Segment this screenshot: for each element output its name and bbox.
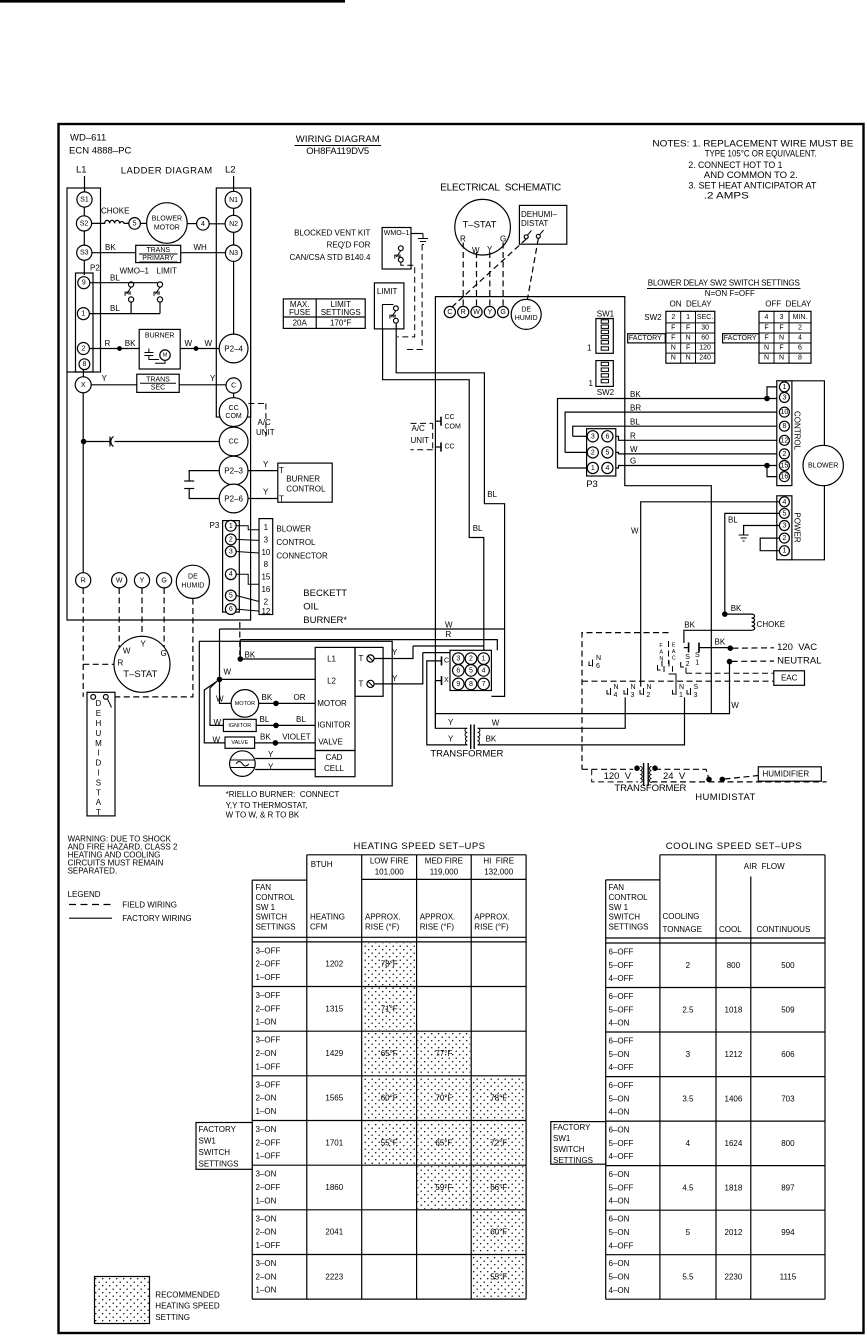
svg-text:W: W	[224, 667, 232, 676]
power pin 1	[779, 546, 789, 556]
svg-text:6: 6	[229, 606, 233, 613]
svg-text:Y: Y	[102, 374, 108, 383]
svg-text:3–OFF: 3–OFF	[256, 1080, 281, 1089]
field wiring dashed box	[582, 633, 669, 770]
WMO-1 switch	[398, 246, 403, 251]
svg-text:D: D	[96, 759, 102, 768]
wire W to L2	[220, 678, 316, 680]
trans sec box	[137, 374, 179, 392]
wire L1 drop	[84, 176, 86, 192]
svg-text:SEC.: SEC.	[697, 314, 713, 321]
burner control box	[278, 463, 332, 502]
svg-text:LOW FIRE: LOW FIRE	[370, 857, 409, 866]
svg-text:2041: 2041	[325, 1228, 343, 1237]
svg-text:5–ON: 5–ON	[609, 1273, 630, 1282]
svg-text:D: D	[96, 699, 102, 708]
svg-text:60: 60	[701, 335, 709, 342]
dashed dehumidistat to C	[452, 239, 526, 307]
switch S2 S1 contacts	[688, 643, 690, 653]
svg-text:H: H	[96, 719, 102, 728]
svg-text:12: 12	[781, 437, 789, 444]
svg-text:LADDER DIAGRAM: LADDER DIAGRAM	[121, 166, 213, 177]
on delay factory box	[628, 334, 666, 343]
svg-text:2230: 2230	[725, 1273, 743, 1282]
svg-text:3: 3	[780, 314, 784, 321]
svg-text:G: G	[161, 577, 166, 584]
svg-text:G: G	[161, 649, 167, 658]
svg-text:L2: L2	[327, 677, 336, 686]
terminal S1	[77, 192, 92, 207]
svg-text:1: 1	[782, 548, 786, 555]
svg-text:W: W	[205, 339, 213, 348]
wire S3 to trans primary	[92, 252, 136, 254]
wire BR to control 10	[565, 412, 779, 452]
svg-text:BLOCKED VENT KIT: BLOCKED VENT KIT	[294, 229, 370, 238]
svg-text:COM: COM	[225, 413, 242, 420]
svg-text:WIRING DIAGRAM: WIRING DIAGRAM	[296, 134, 380, 145]
dashed drop R	[82, 588, 84, 697]
svg-text:S: S	[685, 654, 690, 661]
terminal CC	[219, 427, 248, 456]
svg-text:Y: Y	[210, 374, 216, 383]
svg-text:P2: P2	[90, 264, 100, 273]
svg-text:4: 4	[614, 692, 618, 699]
control pin 12	[779, 435, 789, 445]
svg-text:G: G	[630, 457, 636, 466]
svg-text:2: 2	[686, 661, 690, 668]
svg-text:PRIMARY: PRIMARY	[142, 255, 174, 262]
svg-text:2–OFF: 2–OFF	[256, 1183, 281, 1192]
svg-text:78°F: 78°F	[490, 1094, 507, 1103]
svg-text:HUMID: HUMID	[181, 582, 204, 589]
wire 2 to burner	[89, 348, 139, 350]
svg-text:A/C: A/C	[412, 424, 426, 433]
choke L1 inductor	[92, 220, 129, 223]
svg-text:HEATING SPEED: HEATING SPEED	[155, 1302, 220, 1311]
svg-text:T: T	[279, 494, 284, 503]
svg-text:F: F	[671, 325, 675, 332]
svg-text:65°F: 65°F	[435, 1138, 452, 1147]
svg-text:APPROX.: APPROX.	[365, 913, 401, 922]
dashed drop W	[118, 588, 120, 652]
svg-text:BL: BL	[487, 490, 497, 499]
svg-text:TRANS: TRANS	[146, 247, 170, 254]
svg-text:CAD: CAD	[326, 753, 343, 762]
svg-text:T: T	[279, 466, 284, 475]
svg-text:Y: Y	[268, 750, 274, 759]
svg-text:N3: N3	[229, 250, 238, 257]
24V transformer core	[470, 725, 472, 750]
svg-text:P3: P3	[210, 521, 220, 530]
svg-text:5–ON: 5–ON	[609, 1094, 630, 1103]
t-stat circle (schematic)	[455, 199, 511, 255]
svg-text:Y: Y	[392, 648, 398, 657]
svg-text:6–ON: 6–ON	[609, 1215, 630, 1224]
blower control pin list box	[259, 519, 273, 615]
svg-text:C: C	[447, 309, 452, 316]
svg-text:NEUTRAL: NEUTRAL	[777, 655, 821, 666]
svg-text:2.5: 2.5	[682, 1005, 694, 1014]
svg-text:SWITCH: SWITCH	[256, 913, 288, 922]
svg-text:1–ON: 1–ON	[256, 1018, 277, 1027]
svg-text:1: 1	[589, 379, 594, 388]
9-pin grid box	[450, 650, 491, 690]
svg-text:2: 2	[782, 451, 786, 458]
svg-text:SETTING: SETTING	[155, 1313, 190, 1322]
wire motor W	[220, 682, 232, 704]
svg-text:800: 800	[781, 1139, 795, 1148]
wire R riser	[239, 640, 241, 659]
N1 switch	[673, 688, 677, 695]
heating factory sw1 box	[196, 1123, 252, 1170]
svg-text:IGNITOR: IGNITOR	[228, 723, 251, 729]
svg-text:M: M	[95, 739, 102, 748]
svg-text:DEHUMI–: DEHUMI–	[521, 210, 558, 219]
svg-text:VALVE: VALVE	[231, 740, 248, 746]
burner internal capacitor	[144, 349, 159, 360]
heating table grid	[307, 854, 526, 856]
svg-text:1406: 1406	[725, 1094, 743, 1103]
svg-text:BK: BK	[245, 651, 256, 660]
svg-text:S: S	[694, 684, 699, 691]
svg-text:3–OFF: 3–OFF	[256, 1036, 281, 1045]
control pin 3	[779, 392, 789, 402]
svg-text:Y: Y	[263, 488, 269, 497]
Y wire 2	[423, 652, 471, 654]
wire N1 riser	[669, 674, 677, 688]
off delay factory box	[723, 334, 759, 343]
terminal C	[226, 378, 241, 393]
svg-text:BECKETT: BECKETT	[303, 588, 347, 599]
cad cell box	[315, 751, 355, 777]
node 5	[129, 218, 141, 230]
dashed drop DEHUMID	[111, 599, 193, 697]
P3 pin 6	[225, 604, 236, 615]
svg-text:OR: OR	[294, 693, 306, 702]
svg-text:2–ON: 2–ON	[256, 1049, 277, 1058]
svg-text:FUSE: FUSE	[289, 308, 310, 317]
svg-text:800: 800	[727, 961, 741, 970]
svg-text:R: R	[118, 659, 124, 668]
wire X row	[91, 384, 137, 386]
grid pins 9 8 7	[453, 678, 465, 690]
svg-text:120: 120	[699, 345, 711, 352]
svg-text:4–OFF: 4–OFF	[609, 1152, 634, 1161]
svg-text:1–OFF: 1–OFF	[256, 973, 281, 982]
svg-text:S: S	[695, 652, 700, 659]
svg-text:30: 30	[701, 325, 709, 332]
svg-text:240: 240	[699, 355, 711, 362]
C terminal	[441, 656, 443, 665]
svg-text:CC: CC	[445, 444, 455, 451]
WMO-1 ground wire	[411, 233, 423, 235]
svg-text:SW1: SW1	[597, 310, 615, 319]
svg-text:COOLING: COOLING	[663, 912, 700, 921]
svg-text:SETTINGS: SETTINGS	[321, 308, 361, 317]
svg-text:N=ON F=OFF: N=ON F=OFF	[705, 289, 755, 298]
svg-text:71°F: 71°F	[381, 1004, 398, 1013]
svg-text:4: 4	[201, 221, 205, 228]
svg-text:2: 2	[264, 597, 269, 606]
svg-text:N: N	[631, 684, 636, 691]
svg-text:TYPE 105°C OR EQUIVALENT.: TYPE 105°C OR EQUIVALENT.	[705, 148, 817, 159]
120v primary dashes	[582, 768, 633, 770]
max fuse / limit settings table	[283, 299, 365, 329]
svg-text:CONNECTOR: CONNECTOR	[276, 552, 328, 561]
connector P3 box	[223, 521, 240, 613]
terminal N1	[225, 191, 242, 208]
legend recommended stipple sample	[95, 1277, 150, 1324]
svg-text:T: T	[96, 808, 101, 817]
svg-text:CELL: CELL	[324, 764, 345, 773]
svg-text:COOLING SPEED SET–UPS: COOLING SPEED SET–UPS	[666, 841, 802, 852]
svg-text:1–ON: 1–ON	[256, 1196, 277, 1205]
ground symbol	[418, 234, 428, 245]
wire power4 W	[641, 502, 780, 687]
svg-text:W: W	[185, 339, 193, 348]
choke coil	[684, 614, 755, 643]
terminal C (schematic)	[444, 306, 455, 317]
svg-text:WMO–1: WMO–1	[120, 267, 150, 276]
svg-text:BLOWER: BLOWER	[276, 524, 311, 533]
ground symbol	[739, 535, 749, 541]
wire X down to R	[82, 393, 84, 573]
svg-text:AIR FLOW: AIR FLOW	[744, 862, 785, 871]
legend factory wiring sample	[69, 917, 112, 919]
P3 pin 4	[225, 569, 236, 580]
svg-text:LIMIT: LIMIT	[157, 267, 178, 276]
svg-text:I: I	[97, 769, 99, 778]
svg-text:4: 4	[765, 314, 769, 321]
WMO-1 ladder switch	[129, 282, 134, 287]
svg-text:HUMID: HUMID	[515, 315, 538, 322]
svg-text:T–STAT: T–STAT	[123, 669, 157, 680]
svg-text:1860: 1860	[325, 1183, 343, 1192]
svg-text:ON DELAY: ON DELAY	[670, 300, 713, 309]
power pin 4	[779, 497, 789, 507]
svg-text:Y: Y	[448, 718, 454, 727]
svg-text:F: F	[686, 325, 690, 332]
svg-text:4: 4	[229, 571, 233, 578]
svg-text:2: 2	[591, 449, 595, 456]
control pin 1	[779, 382, 789, 392]
svg-text:BK: BK	[260, 733, 271, 742]
svg-text:SW 1: SW 1	[609, 903, 629, 912]
svg-text:CONTROL: CONTROL	[609, 893, 649, 902]
svg-text:POWER: POWER	[793, 512, 802, 542]
wire R to control 12	[613, 436, 779, 440]
primary dot	[635, 766, 639, 770]
P3 pin 1	[225, 520, 236, 531]
svg-text:BURNER: BURNER	[145, 333, 175, 340]
CC terminal	[435, 446, 441, 448]
svg-text:4–OFF: 4–OFF	[609, 1241, 634, 1250]
svg-text:R: R	[630, 432, 636, 441]
svg-text:T: T	[359, 654, 364, 663]
EAC box	[774, 671, 805, 686]
X terminal	[441, 676, 443, 685]
terminal N2	[225, 215, 242, 232]
blower motor circle	[147, 203, 188, 244]
svg-text:Y: Y	[140, 639, 146, 648]
wire BK to control 3	[558, 399, 780, 469]
WMO-1 box	[382, 228, 411, 270]
wire W to control 2	[613, 452, 779, 454]
svg-text:15: 15	[781, 463, 789, 470]
burner internal motor M	[160, 350, 170, 360]
svg-text:2: 2	[686, 961, 691, 970]
svg-text:3: 3	[591, 433, 595, 440]
svg-text:C: C	[672, 656, 676, 662]
right rail box	[216, 188, 250, 417]
svg-text:BLOWER: BLOWER	[808, 463, 838, 470]
power pin 5	[779, 508, 789, 518]
LIMIT switch	[394, 306, 399, 311]
svg-text:3: 3	[264, 535, 269, 544]
svg-text:MIN.: MIN.	[793, 314, 808, 321]
transformer core	[643, 763, 645, 786]
svg-text:1315: 1315	[325, 1004, 343, 1013]
svg-text:24 V: 24 V	[663, 771, 686, 782]
svg-text:SW1: SW1	[199, 1137, 217, 1146]
svg-text:4.5: 4.5	[682, 1183, 694, 1192]
svg-text:T–STAT: T–STAT	[463, 220, 497, 231]
svg-text:LEGEND: LEGEND	[68, 890, 101, 899]
svg-text:4–ON: 4–ON	[609, 1108, 630, 1117]
svg-text:3–ON: 3–ON	[256, 1125, 277, 1134]
svg-text:UNIT: UNIT	[411, 436, 430, 445]
svg-text:F: F	[779, 325, 783, 332]
svg-text:1: 1	[264, 523, 269, 532]
svg-text:RISE (°F): RISE (°F)	[474, 923, 509, 932]
svg-text:RISE (°F): RISE (°F)	[365, 923, 400, 932]
svg-text:1: 1	[587, 344, 592, 353]
svg-text:66°F: 66°F	[490, 1183, 507, 1192]
wire G to control 15	[613, 466, 779, 469]
pin 9	[78, 277, 90, 289]
svg-text:8: 8	[782, 423, 786, 430]
t-stat circle	[114, 636, 170, 692]
svg-text:HI FIRE: HI FIRE	[483, 857, 514, 866]
svg-text:BURNER: BURNER	[286, 475, 320, 484]
terminal W (schematic)	[471, 306, 482, 317]
svg-text:6–ON: 6–ON	[609, 1170, 630, 1179]
svg-text:MOTOR: MOTOR	[317, 699, 347, 708]
svg-text:77°F: 77°F	[435, 1049, 452, 1058]
svg-text:1202: 1202	[325, 960, 343, 969]
svg-text:3–OFF: 3–OFF	[256, 991, 281, 1000]
svg-text:170°F: 170°F	[330, 318, 352, 327]
secondary BK wire	[478, 697, 685, 745]
svg-text:101,000: 101,000	[375, 867, 404, 876]
N3 switch	[624, 688, 628, 695]
wire trans sec to C	[179, 384, 226, 386]
svg-text:4–OFF: 4–OFF	[609, 1063, 634, 1072]
svg-text:FACTORY: FACTORY	[553, 1123, 591, 1132]
svg-text:1: 1	[782, 384, 786, 391]
svg-text:4: 4	[686, 1139, 691, 1148]
svg-text:4: 4	[605, 465, 609, 472]
svg-text:BLOWER: BLOWER	[152, 216, 182, 223]
terminal P2-3	[219, 456, 248, 485]
dashed drops t-stat R W Y G	[462, 243, 464, 307]
svg-text:W: W	[731, 701, 739, 710]
svg-text:BK: BK	[105, 243, 116, 252]
svg-text:BL: BL	[110, 304, 120, 313]
svg-text:P2–6: P2–6	[224, 495, 243, 504]
heating stipple cells	[363, 943, 416, 986]
svg-text:3: 3	[782, 394, 786, 401]
svg-text:132,000: 132,000	[484, 867, 513, 876]
grid pins 6 5 4	[453, 665, 465, 677]
svg-text:CONTROL: CONTROL	[286, 485, 326, 494]
dashed R to t-stat	[83, 663, 114, 665]
svg-text:A/C: A/C	[258, 418, 272, 427]
svg-text:55°F: 55°F	[490, 1272, 507, 1281]
svg-text:R: R	[460, 235, 466, 244]
N6 switch	[589, 660, 593, 667]
svg-text:1624: 1624	[725, 1139, 743, 1148]
svg-text:APPROX.: APPROX.	[420, 913, 456, 922]
svg-text:FACTORY: FACTORY	[199, 1125, 237, 1134]
svg-text:SETTINGS: SETTINGS	[609, 923, 649, 932]
FAN EAC selector contacts	[658, 661, 673, 673]
svg-text:4–ON: 4–ON	[609, 1197, 630, 1206]
wire BK left drop	[558, 467, 588, 469]
svg-text:1018: 1018	[725, 1005, 743, 1014]
terminal W	[112, 573, 127, 588]
svg-text:N: N	[686, 335, 691, 342]
wire C down	[233, 393, 235, 398]
svg-text:5: 5	[686, 1228, 691, 1237]
svg-text:CC: CC	[229, 405, 239, 412]
terminal CC COM	[219, 398, 248, 427]
svg-text:E: E	[672, 643, 676, 649]
LIMIT wire upper	[396, 323, 504, 629]
svg-text:W: W	[492, 719, 500, 728]
P3 plug pin 2	[587, 447, 598, 458]
neutral node	[727, 659, 731, 663]
control pin 2	[779, 449, 789, 459]
burner box	[139, 329, 180, 369]
svg-text:A: A	[96, 798, 102, 807]
svg-text:6–OFF: 6–OFF	[609, 1081, 634, 1090]
svg-text:Y: Y	[263, 460, 269, 469]
dashed wire to EAC lower	[582, 680, 774, 682]
svg-text:ECN 4888–PC: ECN 4888–PC	[69, 146, 131, 157]
svg-text:FACTORY WIRING: FACTORY WIRING	[122, 914, 191, 923]
svg-text:W TO W, & R TO BK: W TO W, & R TO BK	[226, 811, 300, 820]
terminal S3	[77, 245, 92, 260]
LIMIT inner bracket	[382, 305, 393, 329]
left rail box	[67, 188, 101, 372]
svg-text:WMO–1: WMO–1	[384, 230, 410, 237]
svg-text:120 VAC: 120 VAC	[777, 642, 817, 653]
ignitor box	[223, 719, 256, 731]
cad cell sensor circle	[230, 751, 256, 777]
svg-text:703: 703	[781, 1094, 795, 1103]
svg-text:R: R	[461, 309, 466, 316]
svg-text:1: 1	[229, 523, 233, 530]
svg-text:IGNITOR: IGNITOR	[317, 720, 350, 729]
svg-text:15: 15	[261, 573, 270, 582]
svg-text:8: 8	[82, 361, 86, 368]
wire switch bottoms to pin 1	[130, 302, 132, 314]
svg-text:2: 2	[81, 346, 85, 353]
svg-text:DISTAT: DISTAT	[521, 219, 548, 228]
svg-text:2: 2	[229, 536, 233, 543]
control 1 jumper	[767, 387, 779, 399]
